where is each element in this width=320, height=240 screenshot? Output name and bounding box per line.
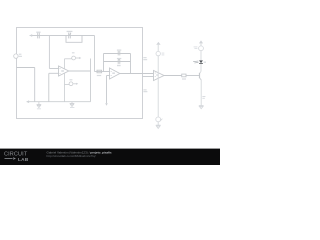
- svg-text:LAB: LAB: [18, 157, 29, 162]
- svg-text:http://circuitlab.com/c68d3s2m: http://circuitlab.com/c68d3s2mzw7lq/: [47, 154, 96, 158]
